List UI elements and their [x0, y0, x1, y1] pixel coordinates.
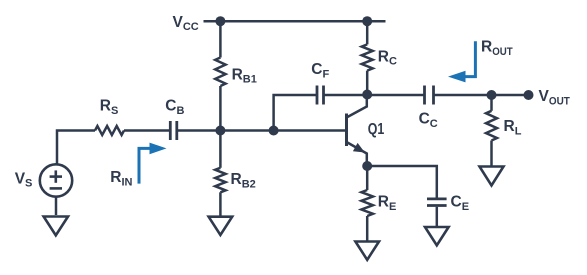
transistor Q1 emitter arrow: [353, 143, 365, 153]
V_S plus sign: [50, 170, 62, 182]
node V_OUT terminal dot: [524, 90, 534, 100]
wire V_CC node to R_B1: [219, 21, 222, 57]
svg-text:ROUT: ROUT: [481, 39, 513, 58]
ground (R_L): [480, 167, 504, 186]
wire V_S vertical to input line: [57, 131, 95, 165]
node output R_L dot: [487, 90, 497, 100]
node base junction dot 2 (C_F branch): [269, 126, 279, 136]
capacitor C_F: [317, 86, 324, 105]
capacitor C_E: [427, 199, 447, 206]
wire collector node to C_C: [367, 94, 423, 97]
wire top rail: [220, 20, 385, 23]
svg-text:RC: RC: [378, 48, 397, 67]
svg-text:Q1: Q1: [368, 121, 385, 138]
arrow R_OUT (blue): [465, 41, 475, 76]
wire R_C to collector node: [366, 71, 369, 95]
node collector dot: [362, 90, 372, 100]
svg-text:RE: RE: [378, 194, 397, 213]
svg-text:VS: VS: [15, 170, 33, 189]
wire C_B to base node: [178, 129, 347, 132]
node emitter dot: [362, 161, 372, 171]
wire R_E to ground: [366, 216, 369, 242]
svg-text:RB1: RB1: [232, 66, 257, 85]
resistor R_B1: [215, 58, 225, 87]
wire C_C to V_OUT: [435, 94, 529, 97]
wire R_S to C_B: [124, 129, 169, 132]
arrow R_IN (blue): [139, 148, 150, 183]
voltage source V_S circle: [40, 164, 72, 196]
transistor Q1 base bar: [345, 114, 348, 147]
resistor R_B2: [215, 168, 225, 193]
wire output node to R_L: [490, 95, 493, 111]
svg-text:RIN: RIN: [110, 169, 132, 188]
ground (C_E): [425, 227, 449, 245]
ground (V_S): [44, 217, 68, 236]
wire V_S to ground: [55, 197, 58, 215]
ground (R_B2): [209, 217, 233, 235]
wire emitter node to R_E: [366, 166, 369, 190]
wire C_F branch vertical: [274, 95, 316, 131]
transistor Q1 emitter lead: [347, 142, 367, 166]
wire R_B2 to ground: [219, 192, 222, 216]
resistor R_L: [486, 111, 497, 141]
svg-text:CC: CC: [419, 111, 438, 130]
svg-text:RL: RL: [504, 118, 522, 137]
capacitor C_B: [170, 121, 177, 140]
svg-text:CF: CF: [311, 61, 329, 80]
resistor R_C: [362, 44, 373, 70]
wire C_F to collector node: [325, 94, 368, 97]
resistor R_S: [95, 126, 124, 135]
node base junction dot 1: [215, 126, 225, 136]
svg-text:RB2: RB2: [231, 171, 256, 190]
svg-text:CE: CE: [451, 194, 470, 213]
svg-text:VCC: VCC: [173, 14, 199, 33]
ground (R_E): [355, 242, 379, 260]
wire V_CC stub to top rail: [204, 20, 221, 23]
node top rail R_C dot: [362, 16, 372, 26]
transistor Q1 collector lead: [347, 95, 367, 118]
wire R_L to ground: [490, 141, 493, 167]
capacitor C_C: [425, 86, 434, 105]
svg-text:RS: RS: [100, 97, 119, 116]
wire C_E to ground: [436, 207, 439, 227]
node V_CC junction dot: [215, 16, 225, 26]
wire R_B1 to base line: [219, 86, 222, 131]
V_S minus sign: [50, 187, 62, 190]
svg-text:VOUT: VOUT: [539, 88, 571, 107]
wire emitter node to C_E: [367, 166, 437, 198]
resistor R_E: [361, 190, 373, 216]
svg-text:CB: CB: [165, 97, 184, 116]
wire base line to R_B2: [219, 131, 222, 168]
wire top rail to R_C: [366, 21, 369, 44]
